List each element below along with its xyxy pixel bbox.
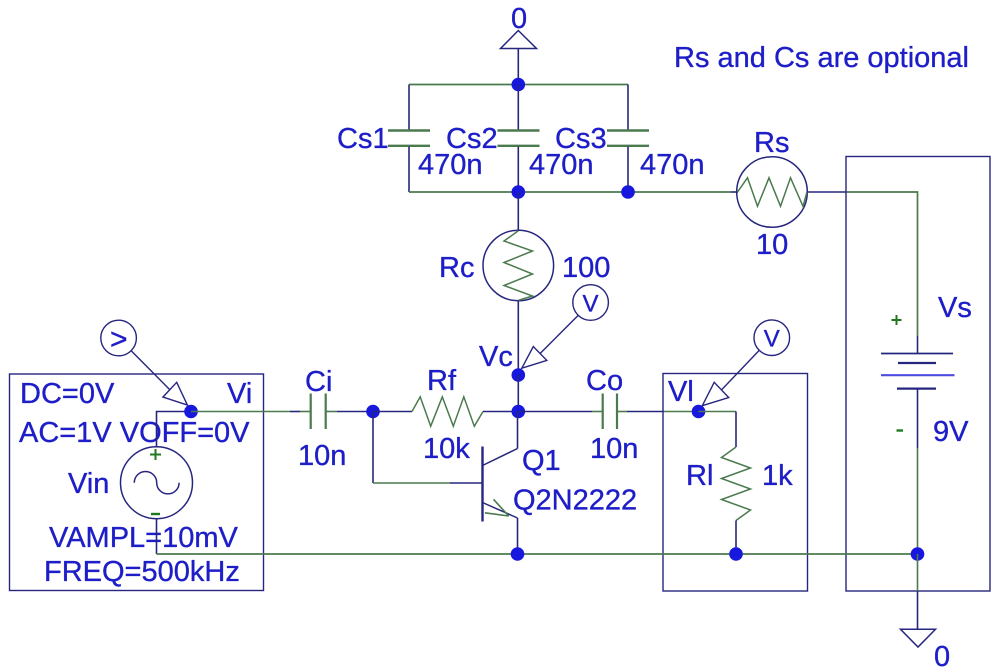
node emitter junction [511, 547, 525, 561]
svg-text:Rl: Rl [686, 460, 713, 492]
voltage marker V at Vl [702, 320, 789, 406]
title text [674, 42, 969, 74]
svg-text:Cs3: Cs3 [555, 123, 607, 155]
svg-text:Cs1: Cs1 [337, 123, 389, 155]
svg-text:9V: 9V [933, 416, 969, 448]
svg-text:VAMPL=10mV: VAMPL=10mV [49, 522, 239, 554]
wire Vi to Ci [191, 411, 300, 413]
node Rl bottom junction [729, 547, 743, 561]
wire top rail [409, 84, 628, 86]
load box Vl [663, 374, 808, 592]
svg-text:>: > [110, 323, 128, 356]
node Vl [668, 376, 705, 418]
svg-text:Vs: Vs [938, 292, 972, 324]
node Vs bottom junction [911, 547, 925, 561]
svg-text:Ci: Ci [305, 366, 332, 398]
svg-text:AC=1V VOFF=0V: AC=1V VOFF=0V [19, 417, 250, 449]
source Vin symbol [121, 412, 193, 555]
wire battery to bottom rail [917, 448, 919, 554]
svg-text:10k: 10k [423, 433, 470, 465]
voltage marker V at Vc [522, 285, 609, 369]
svg-text:FREQ=500kHz: FREQ=500kHz [44, 556, 240, 588]
wire feedback to base [373, 412, 482, 484]
node rail-Rc junction [512, 185, 526, 199]
capacitor Cs2 [446, 85, 594, 193]
wire bottom rail [157, 553, 918, 555]
ground 0 (bottom) [901, 629, 951, 672]
svg-text:V: V [764, 326, 780, 353]
wire Vc to collector node [517, 375, 519, 412]
svg-text:Q2N2222: Q2N2222 [513, 485, 637, 517]
svg-text:10n: 10n [298, 440, 346, 472]
svg-text:10: 10 [756, 229, 788, 261]
capacitor Ci [298, 366, 346, 472]
voltage marker > at Vi [101, 320, 188, 405]
wire Ci to node [337, 411, 373, 413]
resistor Rc [439, 192, 610, 375]
svg-text:DC=0V: DC=0V [20, 378, 115, 410]
node rail-Cs3 junction [621, 185, 635, 199]
svg-text:Vin: Vin [68, 468, 109, 500]
svg-text:Rs: Rs [754, 127, 789, 159]
resistor Rs [731, 127, 846, 261]
source Vin box [10, 374, 264, 591]
svg-text:100: 100 [562, 252, 610, 284]
node Vc [479, 341, 525, 382]
svg-text:Rf: Rf [427, 365, 457, 397]
svg-text:0: 0 [511, 3, 527, 35]
svg-text:Co: Co [586, 365, 623, 397]
svg-text:Vc: Vc [479, 341, 513, 373]
svg-text:470n: 470n [640, 149, 705, 181]
svg-text:Vl: Vl [668, 376, 694, 408]
node Vi junction [184, 405, 198, 419]
transistor Q1 [483, 412, 638, 555]
svg-text:Vi: Vi [227, 378, 252, 410]
node Ci-Rf junction [366, 405, 380, 419]
svg-text:0: 0 [934, 641, 950, 672]
ground 0 (top) [501, 3, 537, 85]
svg-text:Rs and Cs are optional: Rs and Cs are optional [674, 42, 969, 74]
capacitor Cs1 [337, 85, 483, 193]
svg-text:Rc: Rc [439, 252, 474, 284]
source Vin labels [19, 378, 252, 588]
capacitor Co [586, 365, 638, 465]
resistor Rf [373, 365, 518, 465]
node top rail junction [512, 78, 526, 92]
wire Vc node to Co [518, 411, 592, 413]
svg-text:1k: 1k [762, 460, 793, 492]
wire Co to Vl [627, 411, 699, 413]
wire Rs to Vs (into box, turn down) [846, 192, 918, 336]
node collector junction [512, 405, 526, 419]
svg-text:V: V [583, 291, 599, 318]
battery box Vs [846, 157, 990, 592]
battery Vs [881, 292, 972, 448]
wire Vs junction to ground [917, 554, 919, 629]
svg-text:Cs2: Cs2 [446, 123, 498, 155]
svg-text:Q1: Q1 [522, 445, 561, 477]
capacitor Cs3 [555, 85, 705, 193]
wire bottom capacitor rail [409, 191, 731, 193]
svg-text:10n: 10n [590, 433, 638, 465]
resistor Rl [686, 412, 793, 555]
